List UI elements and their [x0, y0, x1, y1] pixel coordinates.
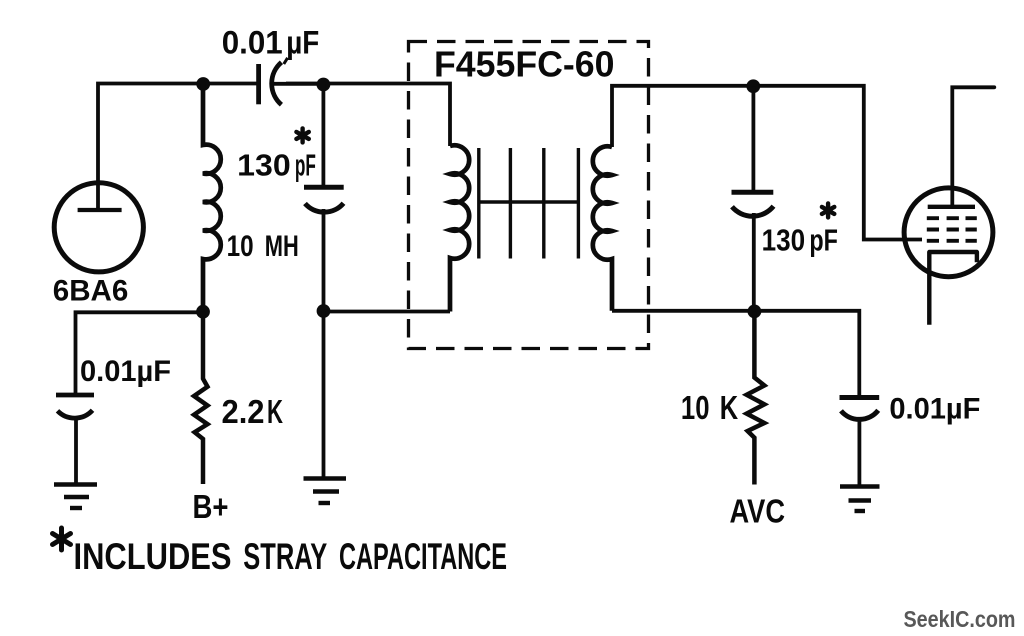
wire mid-left bus with corner down to C4 [76, 312, 204, 394]
svg-text:0.01µF: 0.01µF [80, 355, 171, 388]
capacitor C3 130pF top lead [752, 86, 756, 191]
capacitor C5 0.01µF flat plate [840, 395, 880, 400]
svg-text:2.2: 2.2 [222, 393, 265, 430]
svg-text:0.01µF: 0.01µF [889, 393, 980, 426]
ground G3 [840, 487, 880, 512]
capacitor C4 curved plate [58, 410, 93, 418]
capacitor C3 bottom lead [752, 213, 756, 311]
svg-text:MH: MH [265, 230, 299, 263]
node dot at grid junction [196, 77, 210, 91]
svg-text:pF: pF [809, 222, 838, 257]
svg-text:SeekIC.com: SeekIC.com [904, 606, 1016, 632]
footnote asterisk [53, 528, 71, 550]
tube V1 grid bar [78, 208, 122, 212]
svg-text:130: 130 [237, 148, 291, 183]
asterisk marker near C3 [822, 203, 834, 217]
svg-text:CAPACITANCE: CAPACITANCE [339, 536, 507, 577]
svg-text:B+: B+ [193, 488, 229, 525]
wire C2 bottom to ground G2 [322, 311, 326, 478]
capacitor C2 curved plate [305, 203, 344, 212]
wire mid bus to transformer primary bottom [324, 310, 451, 314]
capacitor C5 curved plate [841, 410, 878, 419]
capacitor C5 bottom lead [858, 417, 862, 486]
svg-text:pF: pF [295, 148, 316, 183]
resistor R1 2.2K with leads [194, 312, 208, 484]
svg-text:µF: µF [286, 25, 319, 61]
capacitor C2 flat plate [304, 185, 344, 190]
tube V1 envelope [54, 183, 143, 272]
transformer T1 shield box dashed [409, 42, 649, 349]
ground G2 [304, 479, 347, 504]
node dot at C2 bottom [317, 304, 331, 318]
svg-text:INCLUDES: INCLUDES [74, 536, 232, 577]
capacitor C4 bottom lead [74, 417, 78, 484]
capacitor C1 0.01µF curved plate [272, 62, 282, 104]
svg-text:10: 10 [227, 230, 254, 263]
node dot at C3 top [746, 79, 760, 93]
wire top bus to transformer primary [286, 84, 450, 147]
tube V2 envelope [904, 188, 993, 277]
transformer T1 primary winding [450, 145, 469, 311]
svg-text:STRAY: STRAY [243, 536, 327, 577]
capacitor C2 130pF top lead [321, 84, 325, 187]
svg-text:10: 10 [681, 389, 710, 426]
svg-text:0.01: 0.01 [222, 25, 283, 61]
capacitor C1 plate tick [284, 58, 288, 64]
wire grid lead of V1 and top-left bus [98, 84, 259, 211]
node dot at L1 bottom [196, 305, 210, 319]
node dot at C2 top [317, 78, 331, 92]
svg-text:K: K [720, 389, 739, 426]
svg-text:AVC: AVC [730, 493, 786, 530]
transformer T1 secondary winding [593, 146, 612, 310]
tube V2 grid dashes [927, 218, 977, 241]
inductor L1 10MH with leads [203, 84, 221, 312]
capacitor C3 curved plate [732, 206, 774, 216]
wire secondary bottom bus to C5 [612, 311, 859, 397]
capacitor C4 0.01µF flat plate [56, 393, 94, 398]
tube V2 plate bar [928, 205, 975, 209]
tube V2 plate lead and top wire [952, 87, 994, 205]
capacitor C1 0.01µF left plate [256, 64, 261, 104]
tube V2 cathode with lead [929, 252, 977, 325]
transformer T1 core bars [479, 148, 579, 259]
node dot at C3 bottom [748, 305, 762, 319]
svg-text:F455FC-60: F455FC-60 [434, 44, 615, 85]
resistor R2 10K with leads [747, 312, 765, 485]
capacitor C3 flat plate [732, 190, 774, 195]
asterisk marker near C2 [296, 128, 308, 142]
capacitor C2 bottom lead [322, 209, 326, 311]
wire from C1 to node at x=323 [273, 82, 323, 86]
svg-text:K: K [267, 393, 283, 430]
svg-text:6BA6: 6BA6 [53, 275, 129, 308]
svg-text:130: 130 [762, 222, 806, 257]
wire secondary top to V2 grid [612, 86, 922, 240]
ground G1 [54, 485, 97, 509]
